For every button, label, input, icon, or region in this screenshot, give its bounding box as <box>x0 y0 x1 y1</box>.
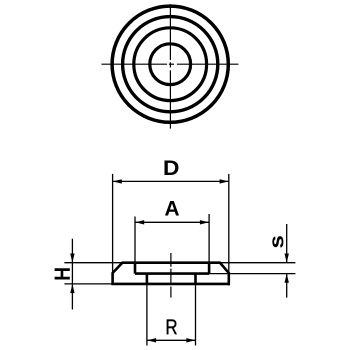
extension line right <box>208 214 210 263</box>
label H <box>55 268 70 279</box>
section view part outline <box>113 263 229 284</box>
extension line right <box>228 174 230 286</box>
dimension line H <box>71 239 73 310</box>
extension line right <box>195 284 197 346</box>
arrow R right <box>186 338 195 342</box>
arrow s bottom <box>285 274 289 283</box>
dimension line s upper <box>286 224 288 263</box>
dimension line s lower <box>286 274 288 298</box>
dimension A <box>135 214 209 263</box>
dimension H <box>64 239 122 310</box>
section centerline <box>170 253 172 298</box>
extension line bottom <box>64 283 112 285</box>
top view circles <box>112 6 228 122</box>
circle step A <box>134 28 207 101</box>
label D <box>165 161 179 176</box>
extension line left <box>134 217 136 263</box>
arrow A left <box>135 220 144 224</box>
label s <box>272 236 283 248</box>
dimension D <box>113 174 229 286</box>
circle outer diameter D <box>112 6 228 122</box>
circle chamfer edge <box>123 17 218 112</box>
dimension R <box>147 284 196 346</box>
circle bore R <box>150 44 191 85</box>
arrow s top <box>285 254 289 263</box>
label R <box>167 320 177 335</box>
ledge line <box>135 272 209 275</box>
dimension line D <box>113 180 229 182</box>
step A edges <box>135 263 209 284</box>
arrow H bottom <box>70 284 74 293</box>
extension line top <box>220 262 296 264</box>
extension line left <box>112 174 114 284</box>
dimension line R <box>147 339 196 341</box>
extension line bottom <box>209 273 295 275</box>
horizontal centerline top view <box>102 63 239 65</box>
step R edges <box>146 274 149 284</box>
dimension s <box>209 224 295 298</box>
arrow H top <box>70 254 74 263</box>
vertical centerline top view <box>169 4 171 128</box>
dimension line A <box>135 221 209 223</box>
arrow R left <box>147 338 156 342</box>
label A <box>165 201 179 216</box>
extension line top <box>64 262 122 264</box>
arrow A right <box>200 220 209 224</box>
arrow D right <box>220 179 229 183</box>
arrow D left <box>113 179 122 183</box>
extension line left <box>146 284 148 346</box>
